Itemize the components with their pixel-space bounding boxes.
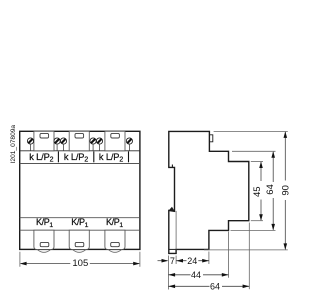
front view horizontal line below screws [20,150,140,152]
arrowhead 24 left [176,259,183,263]
top raised block module 1 [34,131,54,151]
label separator bar 1 [57,151,59,162]
extension line x 228.5 bottom dims [228,232,230,278]
extension line bottom for vertical 64 [231,229,276,231]
dimension line 24 [176,260,209,262]
extension line x 200.4 bottom dims [208,252,210,265]
dimension 105 extension line left [19,252,21,267]
extension line x 249.3 bottom dims [248,223,250,290]
svg-text:K/P1: K/P1 [71,217,88,229]
front view horizontal line below K/P1 text row [20,229,140,231]
top raised block module 2 [69,131,89,151]
svg-text:k L/P2: k L/P2 [29,152,53,164]
svg-text:64: 64 [210,282,220,292]
top slot module 2 [75,133,84,138]
svg-text:k L/P2: k L/P2 [64,152,88,164]
svg-text:k L/P2: k L/P2 [99,152,123,164]
dimension line 64 vertical [272,152,274,230]
front view horizontal line above K/P1 text row [20,217,140,219]
dimension 7 outside arrow [158,259,169,263]
arrowhead 64b right [243,285,250,289]
extension line top for 90 [214,130,288,132]
front view outer outline [20,131,140,249]
din clip notch tick [171,165,173,168]
label separator bar 3 [128,151,130,162]
top slot module 3 [111,133,120,138]
din clip inner line [175,211,177,250]
arrowhead 90 bottom [284,243,288,250]
din clip hook wedge [169,207,174,211]
svg-text:90: 90 [281,185,292,196]
screw terminal L/P2 module 1 [54,138,60,151]
screw terminal k module 2 [60,138,66,151]
arrowhead 24 right [202,259,209,263]
dimension line 105 [21,263,140,265]
extension line bottom for 90 [204,249,288,251]
screw terminal L/P2 module 2 [90,138,96,151]
arrowhead 44 right [222,273,229,277]
arrowhead 64b left [168,285,175,289]
extension line bottom for 45 [251,220,263,222]
bottom terminal block module 1 [34,230,54,252]
din clip foot top line [169,248,177,250]
arrowhead 45 bottom [259,214,263,221]
top raised block module 3 [105,131,125,151]
bottom slot module 2 [75,242,84,246]
dimension line 44 [168,274,228,276]
extension line x 168.4 bottom dims [167,256,169,290]
screw terminal L/P2 module 3 [126,138,132,151]
arrowhead 64v top [271,151,275,158]
svg-text:K/P1: K/P1 [36,217,53,229]
svg-text:45: 45 [252,186,263,197]
dimension 105 extension line right [139,252,141,267]
dimension line 64 bottom [168,285,249,287]
screw terminal k module 3 [96,138,102,151]
dimension text 44 [191,270,204,281]
svg-text:44: 44 [191,270,201,280]
bottom terminal block module 3 [105,230,125,252]
svg-text:105: 105 [72,258,88,269]
extension line top for 45 [251,161,263,163]
svg-text:K/P1: K/P1 [106,217,123,229]
dimension text 24 [187,256,199,267]
svg-text:7: 7 [170,256,175,266]
bottom terminal block module 2 [69,230,89,252]
side view outline [169,131,249,253]
dimension text 64 bottom [210,281,223,292]
svg-text:64: 64 [265,184,276,195]
arrowhead 64v bottom [271,224,275,231]
sealing tab top right [209,135,212,142]
svg-text:I201_07809a: I201_07809a [10,125,17,164]
label separator bar 2 [93,151,95,162]
bottom slot module 3 [111,242,120,246]
arrowhead 90 top [284,131,288,138]
arrowhead 45 top [259,162,263,169]
svg-text:24: 24 [187,256,197,266]
top slot module 1 [40,133,49,138]
arrowhead 105 right [133,262,140,266]
extension line top for vertical 64 [232,150,276,152]
dimension line 45 [260,162,262,220]
screw terminal k module 1 [27,138,33,151]
bottom slot module 1 [40,242,49,246]
arrowhead 44 left [168,273,175,277]
arrowhead 105 left [20,262,27,266]
extension line x 176 bottom dims [175,256,177,265]
front view horizontal line below k-L/P2 text row [20,163,140,165]
dimension line 90 [284,132,286,249]
